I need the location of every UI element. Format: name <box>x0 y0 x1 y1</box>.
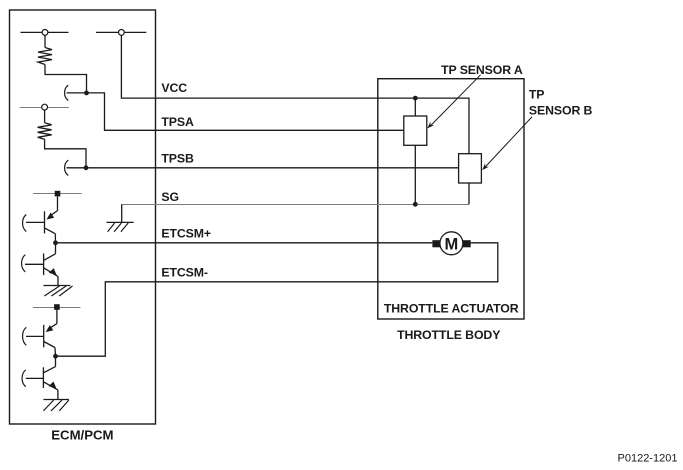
svg-text:THROTTLE BODY: THROTTLE BODY <box>397 328 500 342</box>
svg-text:TPSA: TPSA <box>161 115 194 129</box>
svg-text:THROTTLE ACTUATOR: THROTTLE ACTUATOR <box>384 302 519 316</box>
svg-text:ECM/PCM: ECM/PCM <box>51 428 113 443</box>
svg-text:TP SENSOR A: TP SENSOR A <box>441 63 523 77</box>
svg-text:TP: TP <box>529 88 545 102</box>
svg-text:M: M <box>445 235 459 253</box>
svg-text:ETCSM+: ETCSM+ <box>161 227 211 241</box>
svg-text:VCC: VCC <box>161 81 187 95</box>
svg-text:SG: SG <box>161 190 179 204</box>
svg-text:SENSOR B: SENSOR B <box>529 103 593 117</box>
svg-text:ETCSM-: ETCSM- <box>161 265 208 279</box>
svg-text:TPSB: TPSB <box>161 151 194 165</box>
svg-text:P0122-1201: P0122-1201 <box>618 453 678 465</box>
